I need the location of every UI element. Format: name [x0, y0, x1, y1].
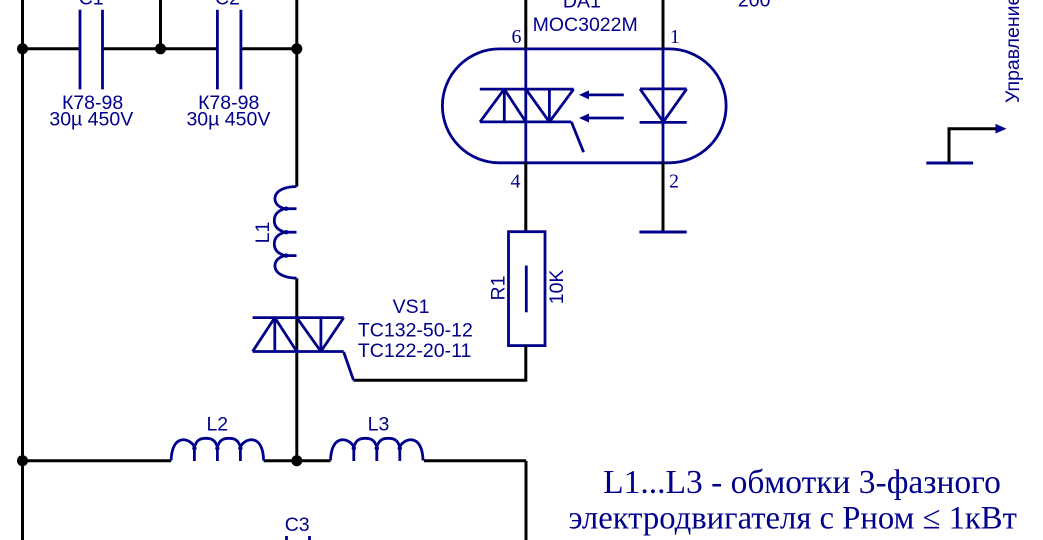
svg-text:C3: C3	[285, 514, 310, 536]
svg-text:2: 2	[669, 171, 679, 193]
resistor R1 inner mark	[525, 266, 528, 313]
wire bottom right vertical	[525, 461, 528, 540]
ground terminal bar under pin 2	[639, 231, 686, 234]
wire top bus segment 2	[103, 47, 218, 50]
wire bottom bus segment 1	[23, 459, 172, 462]
svg-text:электродвигателя с Рном ≤ 1кВт: электродвигателя с Рном ≤ 1кВт	[568, 501, 1016, 537]
inductor L1 cusp knobs	[284, 207, 288, 258]
svg-text:1: 1	[670, 26, 680, 48]
inductor L2 coil	[171, 438, 264, 461]
svg-text:L3: L3	[368, 414, 390, 436]
op-amp U1 optocoupler DA1 body	[442, 49, 726, 163]
wire top bus segment 3	[241, 47, 297, 50]
svg-text:ТС122-20-11: ТС122-20-11	[358, 340, 471, 362]
control arrow wire	[949, 129, 996, 163]
wire R1 bottom to gate	[354, 346, 526, 381]
inductor L2 cusp knobs	[192, 446, 242, 450]
svg-text:C1: C1	[79, 0, 104, 10]
wire pin 1 inside DA1	[662, 49, 665, 163]
inductor L3 coil	[331, 438, 424, 461]
node junction dot bottom-mid	[291, 455, 302, 466]
resistor R1 body	[509, 232, 546, 346]
wire top feed 2	[159, 0, 162, 49]
wire pin 4 below	[524, 162, 527, 231]
svg-text:200: 200	[738, 0, 771, 11]
svg-text:VS1: VS1	[393, 296, 430, 318]
svg-text:L1: L1	[252, 222, 274, 244]
capacitor C1 plates	[80, 10, 103, 90]
capacitor C2 plates	[217, 10, 241, 90]
light arrow 1	[589, 94, 624, 97]
LED inside DA1	[640, 89, 687, 123]
wire pin 6 inside DA1	[524, 49, 527, 163]
svg-text:C2: C2	[215, 0, 240, 10]
svg-text:L1...L3 - обмотки 3-фазного: L1...L3 - обмотки 3-фазного	[603, 464, 1001, 501]
node junction dot top-left	[17, 43, 28, 54]
wire top feed 3 / main phase wire	[295, 0, 298, 187]
wire main vertical through VS1	[295, 278, 298, 461]
svg-text:4: 4	[511, 171, 521, 193]
node junction dot top-right	[291, 43, 302, 54]
wire pin 1 above	[662, 0, 665, 49]
svg-text:R1: R1	[488, 276, 510, 301]
node junction dot top-mid	[155, 43, 166, 54]
phototriac inside DA1	[480, 89, 584, 152]
triac VS1	[253, 318, 354, 381]
svg-text:30µ 450V: 30µ 450V	[186, 109, 270, 131]
wire top bus segment 1	[23, 47, 81, 50]
control arrow head	[996, 124, 1007, 134]
svg-text:L2: L2	[206, 414, 228, 436]
svg-text:Управление: Управление	[1002, 0, 1024, 103]
svg-text:ТС132-50-12: ТС132-50-12	[358, 320, 473, 342]
svg-text:MOC3022M: MOC3022M	[533, 14, 638, 36]
wire pin 6 above	[524, 0, 527, 49]
light arrow 2	[589, 117, 624, 120]
wire bottom bus segment 2	[264, 459, 331, 462]
inductor L3 cusp knobs	[352, 446, 402, 450]
wire bottom bus segment 3	[424, 459, 526, 462]
svg-text:10K: 10K	[546, 270, 568, 305]
svg-text:6: 6	[512, 26, 522, 48]
wire left vertical bus	[21, 0, 24, 540]
wire pin 2 below	[662, 162, 665, 232]
inductor L1 coil	[274, 187, 296, 279]
capacitor C3 plates (cut off at bottom)	[287, 536, 310, 540]
svg-text:30µ 450V: 30µ 450V	[49, 109, 133, 131]
node junction dot bottom-left	[17, 455, 28, 466]
control terminal bar	[926, 162, 973, 165]
svg-text:DA1: DA1	[563, 0, 601, 13]
